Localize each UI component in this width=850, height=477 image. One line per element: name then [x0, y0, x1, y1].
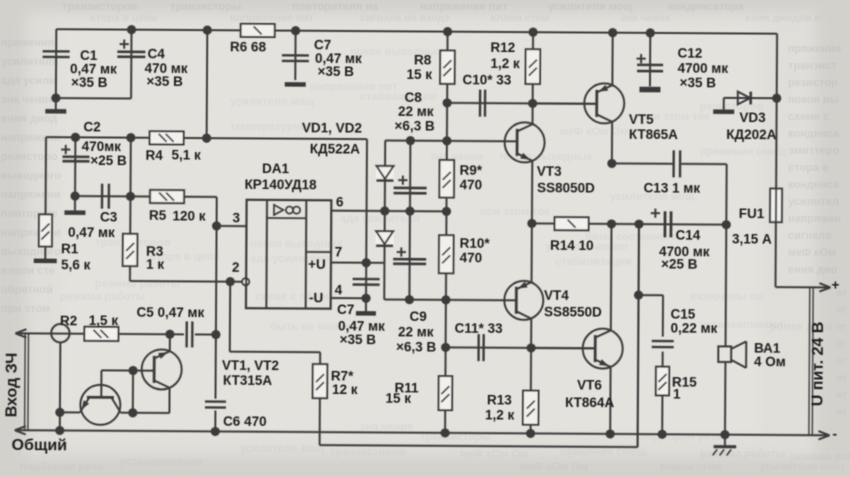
svg-text:обратной: обратной: [1, 284, 53, 296]
svg-text:4 Ом: 4 Ом: [754, 354, 786, 369]
svg-text:FU1: FU1: [739, 206, 765, 221]
svg-text:Вход ЗЧ: Вход ЗЧ: [3, 353, 20, 418]
svg-text:×6,3 В: ×6,3 В: [394, 119, 434, 134]
svg-text:C2: C2: [83, 119, 100, 134]
svg-text:C11* 33: C11* 33: [454, 320, 503, 335]
svg-text:C14: C14: [675, 227, 700, 242]
svg-text:1,2 к: 1,2 к: [490, 56, 520, 71]
svg-text:R10*: R10*: [460, 236, 491, 251]
svg-text:конденса: конденса: [788, 179, 840, 191]
svg-text:+: +: [831, 277, 839, 292]
svg-text:ят: ят: [836, 373, 847, 384]
svg-text:C3: C3: [100, 209, 118, 224]
svg-text:ения дио: ения дио: [788, 264, 838, 276]
svg-text:режима работы: режима работы: [60, 291, 145, 303]
svg-text:усилителя мощ: усилителя мощ: [240, 443, 325, 455]
svg-text:C9: C9: [409, 309, 426, 324]
svg-text:7: 7: [335, 245, 343, 260]
svg-text:стора в цепи: стора в цепи: [90, 12, 157, 24]
svg-text:C7: C7: [337, 302, 354, 317]
svg-text:ения диодов и: ения диодов и: [745, 12, 821, 24]
svg-text:4: 4: [335, 283, 343, 298]
svg-text:напряжен: напряжен: [788, 213, 841, 225]
svg-text:зна чение: зна чение: [620, 12, 671, 24]
svg-text:подбором рези: подбором рези: [640, 431, 723, 443]
svg-text:КТ315А: КТ315А: [223, 373, 272, 388]
svg-text:режима работы: режима работы: [95, 278, 180, 290]
svg-text:R8: R8: [414, 53, 432, 68]
svg-text:усилител: усилител: [788, 196, 839, 208]
svg-text:C8: C8: [404, 90, 422, 105]
svg-text:12 к: 12 к: [332, 382, 358, 397]
svg-text:-U: -U: [309, 290, 323, 305]
svg-text:режима работы: режима работы: [790, 451, 850, 463]
svg-text:влаои сте: влаои сте: [1, 265, 55, 277]
svg-text:-: -: [833, 426, 838, 441]
svg-text:ят: ят: [836, 356, 847, 367]
svg-text:мкФ кОм Ом: мкФ кОм Ом: [460, 448, 528, 460]
svg-text:U пит. 24 В: U пит. 24 В: [809, 322, 827, 407]
svg-text:покоя выходных: покоя выходных: [500, 151, 593, 163]
svg-text:0,47 мк: 0,47 мк: [68, 225, 115, 240]
svg-text:×6,3 В: ×6,3 В: [396, 340, 436, 355]
svg-text:пряжения: пряжения: [1, 37, 54, 49]
svg-text:VD3: VD3: [739, 110, 766, 125]
svg-text:1: 1: [673, 386, 681, 401]
svg-text:3: 3: [232, 210, 240, 225]
svg-text:покоя вы: покоя вы: [788, 94, 839, 106]
svg-text:120 к: 120 к: [172, 209, 205, 224]
svg-text:мкФ кОм Ом: мкФ кОм Ом: [520, 461, 588, 473]
svg-text:470: 470: [459, 177, 482, 192]
svg-text:C6 470: C6 470: [223, 414, 267, 429]
svg-text:4700 мк: 4700 мк: [678, 60, 729, 75]
svg-text:×25 В: ×25 В: [90, 153, 127, 168]
svg-text:R13: R13: [487, 392, 512, 407]
svg-text:резистор: резистор: [788, 77, 838, 89]
svg-text:SS8050D: SS8050D: [537, 180, 595, 195]
svg-text:при этом: при этом: [1, 303, 50, 315]
svg-text:VT4: VT4: [544, 288, 569, 303]
svg-text:R14 10: R14 10: [550, 238, 594, 253]
svg-text:ят: ят: [836, 339, 847, 350]
svg-text:VT5: VT5: [629, 112, 654, 127]
svg-text:R2: R2: [60, 313, 77, 328]
svg-text:мкФ кОм Ом: мкФ кОм Ом: [560, 126, 628, 138]
svg-text:C13 1 мк: C13 1 мк: [643, 180, 700, 195]
svg-text:ят: ят: [836, 390, 847, 401]
svg-text:5,1 к: 5,1 к: [171, 148, 201, 163]
svg-text:R5: R5: [149, 208, 167, 223]
svg-text:1,5 к: 1,5 к: [89, 313, 119, 328]
svg-text:КТ865А: КТ865А: [629, 127, 678, 142]
svg-text:C10* 33: C10* 33: [462, 72, 511, 87]
svg-text:×35 В: ×35 В: [340, 332, 377, 347]
svg-text:15 к: 15 к: [385, 391, 411, 406]
svg-text:стора в: стора в: [788, 162, 829, 174]
svg-text:ада усили: ада усили: [1, 75, 56, 87]
svg-text:1,2 к: 1,2 к: [485, 407, 515, 422]
svg-text:КД522А: КД522А: [310, 141, 360, 156]
svg-text:выходного: выходного: [1, 170, 61, 182]
svg-text:усилителя мощ: усилителя мощ: [230, 96, 315, 108]
svg-text:устанавливают: устанавливают: [120, 456, 204, 468]
svg-text:+U: +U: [308, 257, 326, 272]
svg-text:C12: C12: [678, 45, 703, 60]
svg-text:влаои стем: влаои стем: [660, 461, 722, 473]
svg-text:ения диод: ения диод: [1, 113, 57, 125]
svg-text:0,22 мк: 0,22 мк: [670, 321, 717, 336]
svg-text:ят: ят: [836, 407, 847, 418]
svg-text:×25 В: ×25 В: [661, 256, 698, 271]
svg-text:×35 В: ×35 В: [317, 64, 354, 79]
svg-text:выходного: выходного: [1, 246, 61, 258]
svg-text:сигнала: сигнала: [788, 230, 832, 242]
svg-text:SS8550D: SS8550D: [544, 304, 602, 319]
svg-text:эмиттеро: эмиттеро: [788, 145, 839, 157]
svg-text:470мк: 470мк: [82, 139, 122, 154]
svg-text:R4: R4: [145, 148, 163, 163]
svg-text:6: 6: [336, 195, 344, 210]
svg-text:мкФ кОм: мкФ кОм: [788, 247, 836, 259]
svg-text:стабилизации: стабилизации: [360, 91, 437, 103]
svg-text:470: 470: [460, 250, 483, 265]
svg-text:КТ864А: КТ864А: [565, 395, 614, 410]
svg-text:×35 В: ×35 В: [146, 74, 183, 89]
svg-text:VT1, VT2: VT1, VT2: [222, 358, 279, 373]
svg-text:транзисторов: транзисторов: [330, 446, 406, 458]
svg-text:напряжени: напряжени: [1, 189, 61, 201]
svg-text:при этом ток: при этом ток: [480, 206, 550, 218]
svg-text:ят: ят: [836, 305, 847, 316]
svg-text:3,15 А: 3,15 А: [732, 232, 772, 247]
svg-text:конденсатора: конденсатора: [668, 1, 745, 13]
svg-text:VT3: VT3: [537, 164, 562, 179]
svg-text:зна чение: зна чение: [430, 151, 483, 163]
svg-text:конденса: конденса: [788, 128, 840, 140]
svg-text:сигнала на входе: сигнала на входе: [360, 12, 450, 24]
svg-text:C4: C4: [148, 46, 166, 61]
svg-text:22 мк: 22 мк: [398, 325, 434, 340]
svg-text:стабилизации: стабилизации: [555, 256, 632, 268]
svg-text:схеме с: схеме с: [788, 111, 829, 123]
svg-text:пряжения смещ: пряжения смещ: [700, 146, 787, 158]
svg-text:C15: C15: [670, 307, 695, 322]
svg-text:транзист: транзист: [788, 60, 837, 72]
svg-text:C5 0,47 мк: C5 0,47 мк: [136, 304, 204, 319]
svg-text:покоя выходных: покоя выходных: [250, 238, 343, 250]
svg-text:VD1, VD2: VD1, VD2: [302, 120, 362, 135]
svg-text:2: 2: [232, 260, 240, 275]
svg-text:R6 68: R6 68: [230, 39, 267, 54]
svg-text:КР140УД18: КР140УД18: [244, 177, 317, 192]
svg-text:Общий: Общий: [12, 437, 68, 454]
svg-text:зна чение: зна чение: [1, 94, 54, 106]
svg-text:влаои стем: влаои стем: [490, 12, 549, 24]
svg-text:пряжения: пряжения: [788, 43, 841, 55]
svg-text:15 к: 15 к: [406, 67, 432, 82]
svg-text:×35 В: ×35 В: [680, 75, 717, 90]
svg-text:ят: ят: [836, 322, 847, 333]
svg-text:R9*: R9*: [459, 163, 482, 178]
svg-text:1 к: 1 к: [146, 257, 164, 272]
svg-text:подбором рези: подбором рези: [20, 461, 103, 473]
svg-text:R12: R12: [490, 40, 515, 55]
svg-text:22 мк: 22 мк: [398, 104, 434, 119]
svg-text:КД202А: КД202А: [726, 127, 776, 142]
svg-text:VT6: VT6: [577, 377, 602, 392]
svg-text:резисторо: резисторо: [1, 151, 58, 163]
svg-text:зна чение: зна чение: [360, 421, 413, 433]
svg-text:×35 В: ×35 В: [71, 75, 108, 90]
svg-text:R1: R1: [61, 241, 79, 256]
svg-text:5,6 к: 5,6 к: [61, 257, 91, 272]
svg-text:DA1: DA1: [262, 161, 290, 176]
svg-text:напряжение пит: напряжение пит: [230, 12, 314, 24]
